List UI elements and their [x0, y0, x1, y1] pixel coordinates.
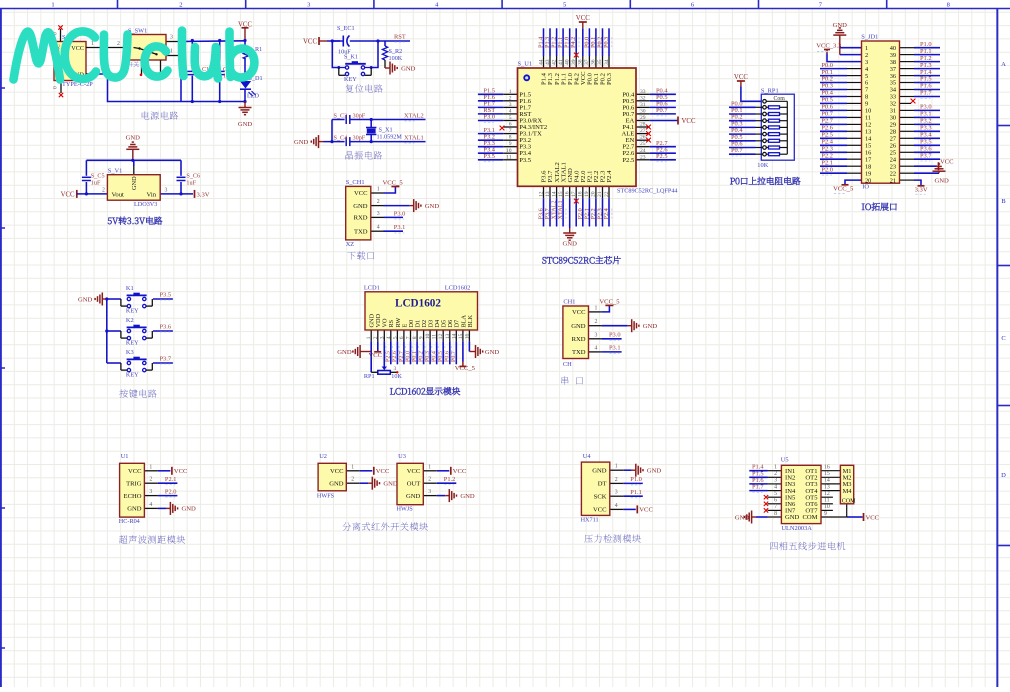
svg-text:2: 2 [428, 477, 431, 483]
svg-text:2: 2 [865, 52, 868, 59]
svg-text:HWFS: HWFS [317, 493, 335, 500]
svg-text:P3.0: P3.0 [483, 114, 495, 121]
svg-text:9: 9 [509, 141, 512, 147]
svg-text:24: 24 [640, 148, 646, 154]
svg-text:5: 5 [774, 491, 777, 497]
svg-text:1: 1 [774, 465, 777, 471]
svg-text:VCC: VCC [128, 468, 142, 475]
svg-text:37: 37 [584, 59, 590, 65]
svg-text:P3.5: P3.5 [519, 157, 532, 164]
svg-text:1: 1 [170, 49, 173, 55]
svg-text:GND: GND [460, 493, 475, 500]
svg-text:HC-R04: HC-R04 [119, 518, 140, 525]
svg-text:22: 22 [604, 191, 610, 197]
svg-text:17: 17 [865, 156, 871, 163]
svg-text:RXD: RXD [354, 215, 368, 222]
svg-text:GND: GND [238, 121, 253, 128]
svg-text:LCD1602: LCD1602 [445, 285, 471, 292]
svg-text:Vout: Vout [112, 191, 125, 198]
svg-text:40: 40 [565, 59, 571, 65]
svg-text:TXD: TXD [572, 349, 586, 356]
svg-text:P0.6: P0.6 [445, 351, 451, 362]
svg-text:1: 1 [366, 336, 372, 339]
svg-text:BLK: BLK [467, 314, 474, 327]
svg-text:4: 4 [149, 502, 152, 508]
svg-text:VCC: VCC [682, 118, 696, 125]
svg-text:S_U1: S_U1 [518, 61, 533, 68]
svg-text:P2.1: P2.1 [821, 159, 833, 166]
svg-text:33: 33 [640, 89, 646, 95]
svg-text:16: 16 [565, 191, 571, 197]
svg-text:3: 3 [394, 366, 397, 372]
svg-text:9: 9 [419, 336, 425, 339]
svg-text:1: 1 [595, 305, 598, 311]
svg-text:P2.6: P2.6 [392, 351, 398, 362]
svg-text:P3.5: P3.5 [160, 291, 172, 298]
svg-text:S_C6: S_C6 [186, 172, 200, 179]
svg-text:KEY: KEY [344, 76, 357, 83]
svg-text:P0.7: P0.7 [821, 111, 833, 118]
svg-text:S_K1: S_K1 [344, 54, 358, 61]
svg-text:P0.1: P0.1 [412, 351, 418, 362]
svg-text:P1.1: P1.1 [920, 48, 932, 55]
svg-text:P1.2: P1.2 [444, 476, 456, 483]
svg-text:S_C4: S_C4 [334, 135, 348, 142]
svg-text:23: 23 [890, 163, 896, 170]
svg-text:13: 13 [824, 484, 830, 490]
svg-text:37: 37 [890, 66, 896, 73]
svg-text:36: 36 [591, 59, 597, 65]
svg-text:23: 23 [640, 154, 646, 160]
svg-text:GND: GND [401, 65, 416, 72]
svg-text:15: 15 [558, 191, 564, 197]
svg-text:2: 2 [179, 2, 182, 9]
svg-text:2: 2 [509, 95, 512, 101]
svg-text:18: 18 [578, 191, 584, 197]
svg-text:P1.2: P1.2 [920, 55, 932, 62]
svg-text:P3.1: P3.1 [394, 224, 406, 231]
svg-text:3: 3 [165, 187, 168, 193]
svg-text:3: 3 [377, 211, 380, 217]
svg-text:GND: GND [131, 176, 138, 190]
svg-text:P0.5: P0.5 [438, 351, 444, 362]
svg-text:GND: GND [425, 203, 440, 210]
svg-text:3: 3 [774, 478, 777, 484]
svg-text:VCC: VCC [376, 468, 390, 475]
svg-text:3.3V: 3.3V [197, 191, 210, 198]
svg-text:P1.1: P1.1 [630, 489, 642, 496]
svg-text:8: 8 [412, 336, 418, 339]
svg-text:12: 12 [538, 191, 544, 197]
svg-text:LCD1: LCD1 [364, 285, 380, 292]
svg-text:VCC: VCC [174, 468, 188, 475]
svg-text:P1.7: P1.7 [752, 484, 764, 491]
svg-text:39: 39 [571, 59, 577, 65]
svg-text:0: 0 [53, 86, 59, 89]
svg-text:P0.4: P0.4 [432, 351, 438, 362]
svg-text:4: 4 [595, 345, 598, 351]
svg-text:P1.6: P1.6 [920, 83, 932, 90]
svg-text:P0.0: P0.0 [405, 351, 411, 362]
svg-text:2: 2 [615, 477, 618, 483]
svg-text:15: 15 [458, 334, 464, 340]
svg-text:P2.1: P2.1 [165, 476, 177, 483]
svg-text:25: 25 [640, 141, 646, 147]
svg-text:14: 14 [865, 136, 872, 143]
svg-text:D: D [1001, 472, 1006, 479]
svg-text:Vin: Vin [147, 191, 157, 198]
svg-text:GND: GND [647, 468, 662, 475]
svg-text:26: 26 [890, 143, 896, 150]
svg-text:38: 38 [890, 59, 896, 66]
svg-text:P3.0: P3.0 [920, 104, 932, 111]
svg-text:P4.2: P4.2 [570, 37, 577, 48]
svg-text:LCD1602: LCD1602 [395, 297, 441, 309]
svg-text:GND: GND [406, 493, 421, 500]
svg-text:35: 35 [597, 59, 603, 65]
svg-text:XZ: XZ [346, 241, 355, 248]
svg-text:K1: K1 [126, 285, 134, 292]
svg-text:14: 14 [551, 191, 557, 197]
svg-text:32: 32 [640, 95, 646, 101]
svg-text:GND: GND [78, 297, 93, 304]
svg-text:P2.2: P2.2 [821, 152, 833, 159]
svg-text:P3.5: P3.5 [920, 139, 932, 146]
svg-text:5: 5 [509, 115, 512, 121]
svg-text:3: 3 [428, 489, 431, 495]
svg-text:KEY: KEY [126, 340, 139, 347]
svg-text:6: 6 [509, 122, 512, 128]
svg-text:P1.3: P1.3 [920, 62, 932, 69]
svg-text:P3.7: P3.7 [920, 152, 932, 159]
svg-text:P3.5: P3.5 [483, 153, 495, 160]
svg-text:11.0592M: 11.0592M [377, 134, 403, 141]
svg-text:LED: LED [247, 93, 260, 100]
svg-text:P2.5: P2.5 [386, 351, 392, 362]
svg-text:P3.1: P3.1 [920, 111, 932, 118]
svg-text:GND: GND [785, 514, 800, 521]
svg-text:P3.0: P3.0 [394, 210, 406, 217]
svg-text:3: 3 [170, 35, 173, 41]
svg-text:44: 44 [538, 59, 544, 65]
svg-text:10: 10 [865, 108, 871, 115]
svg-text:S_V1: S_V1 [108, 167, 123, 174]
svg-text:2: 2 [373, 336, 379, 339]
svg-text:GND: GND [182, 506, 197, 513]
svg-text:VCC: VCC [576, 15, 590, 22]
svg-text:15: 15 [824, 471, 830, 477]
svg-text:11: 11 [432, 334, 438, 340]
svg-text:P3.1: P3.1 [609, 345, 621, 352]
svg-text:GND: GND [294, 139, 309, 146]
svg-text:HWJS: HWJS [397, 506, 414, 513]
svg-text:M4: M4 [843, 488, 853, 495]
svg-text:11: 11 [824, 498, 830, 504]
svg-text:2: 2 [774, 471, 777, 477]
svg-text:6: 6 [865, 80, 868, 87]
svg-text:31: 31 [640, 102, 646, 108]
svg-text:XTAL1: XTAL1 [404, 134, 424, 141]
svg-text:P1.0: P1.0 [630, 476, 642, 483]
svg-text:VCC_5: VCC_5 [455, 365, 476, 372]
svg-text:21: 21 [597, 191, 603, 197]
svg-text:12: 12 [824, 491, 830, 497]
svg-text:7: 7 [774, 504, 777, 510]
svg-text:P0.5: P0.5 [821, 97, 833, 104]
svg-text:1: 1 [51, 2, 54, 9]
svg-text:GND: GND [337, 349, 352, 356]
svg-text:4: 4 [509, 108, 512, 114]
svg-text:P3.3: P3.3 [920, 125, 932, 132]
svg-text:P0.0: P0.0 [821, 62, 833, 69]
svg-text:SCK: SCK [594, 493, 607, 500]
svg-text:GND: GND [329, 480, 344, 487]
svg-text:P2.5: P2.5 [622, 157, 635, 164]
svg-text:P2.5: P2.5 [821, 132, 833, 139]
svg-text:2: 2 [149, 477, 152, 483]
svg-text:1: 1 [615, 464, 618, 470]
svg-text:DT: DT [598, 481, 607, 488]
svg-text:1: 1 [91, 41, 94, 47]
svg-text:4: 4 [386, 336, 392, 339]
svg-text:GND: GND [571, 323, 586, 330]
svg-text:43: 43 [545, 59, 551, 65]
svg-text:CH1: CH1 [563, 299, 575, 306]
svg-text:14: 14 [451, 334, 457, 340]
svg-text:6: 6 [774, 498, 777, 504]
svg-text:1uF: 1uF [186, 179, 196, 186]
svg-text:P0.6: P0.6 [821, 104, 833, 111]
svg-text:U3: U3 [398, 453, 406, 460]
svg-text:30pF: 30pF [353, 135, 366, 142]
svg-text:VCC_5: VCC_5 [383, 179, 404, 186]
svg-text:6: 6 [399, 336, 405, 339]
svg-text:P0.3: P0.3 [606, 72, 613, 85]
svg-text:OUT: OUT [407, 480, 421, 487]
svg-text:19: 19 [584, 191, 590, 197]
svg-text:VCC: VCC [572, 309, 586, 316]
svg-text:2: 2 [377, 199, 380, 205]
svg-text:10: 10 [506, 148, 512, 154]
svg-text:2: 2 [595, 319, 598, 325]
svg-text:5: 5 [392, 336, 398, 339]
svg-text:S_C5: S_C5 [91, 172, 105, 179]
svg-text:1: 1 [509, 89, 512, 95]
svg-text:9: 9 [824, 511, 827, 517]
svg-text:K3: K3 [126, 349, 134, 356]
svg-text:4: 4 [774, 484, 777, 490]
svg-text:42: 42 [551, 59, 557, 65]
svg-text:KEY: KEY [126, 372, 139, 379]
svg-text:COM: COM [842, 499, 856, 505]
svg-text:P1.7: P1.7 [920, 90, 932, 97]
svg-text:20: 20 [591, 191, 597, 197]
svg-text:P3.6: P3.6 [160, 323, 172, 330]
svg-text:HX711: HX711 [581, 517, 599, 524]
svg-text:LDO3V3: LDO3V3 [134, 201, 157, 208]
svg-text:16: 16 [824, 465, 830, 471]
svg-text:30pF: 30pF [353, 113, 366, 120]
svg-text:VCC: VCC [593, 507, 607, 514]
svg-text:GND: GND [485, 349, 500, 356]
svg-text:STC89C52RC_LQFP44: STC89C52RC_LQFP44 [617, 188, 678, 195]
svg-text:P0.2: P0.2 [821, 76, 833, 83]
svg-text:16: 16 [464, 334, 470, 340]
svg-text:B: B [1001, 198, 1006, 205]
svg-text:7: 7 [509, 128, 512, 134]
svg-text:30: 30 [890, 115, 896, 122]
svg-text:VCC_5: VCC_5 [599, 298, 620, 305]
svg-text:P2.5: P2.5 [656, 153, 668, 160]
svg-text:GND: GND [383, 481, 398, 488]
svg-text:U5: U5 [781, 457, 789, 464]
svg-text:39: 39 [890, 52, 896, 59]
svg-text:GND: GND [127, 506, 142, 513]
svg-text:Com: Com [774, 96, 786, 102]
svg-text:ULN2003A: ULN2003A [781, 525, 812, 532]
svg-text:U4: U4 [583, 453, 592, 460]
svg-text:4: 4 [615, 503, 618, 509]
svg-text:P1.5: P1.5 [920, 76, 932, 83]
svg-text:41: 41 [558, 59, 564, 65]
svg-text:K2: K2 [126, 317, 134, 324]
svg-text:3: 3 [509, 102, 512, 108]
svg-text:C: C [1001, 335, 1005, 342]
svg-text:VCC: VCC [453, 468, 467, 475]
svg-text:31: 31 [890, 108, 896, 115]
svg-text:26: 26 [640, 135, 646, 141]
svg-text:GND: GND [353, 203, 368, 210]
svg-text:GND: GND [592, 467, 607, 474]
svg-text:38: 38 [578, 59, 584, 65]
svg-text:17: 17 [571, 191, 577, 197]
svg-text:GND: GND [735, 514, 750, 521]
svg-text:12: 12 [438, 334, 444, 340]
svg-text:P0.7: P0.7 [656, 107, 668, 114]
svg-text:18: 18 [865, 163, 871, 170]
svg-text:P3.0: P3.0 [609, 332, 621, 339]
svg-text:P0.7: P0.7 [731, 147, 743, 154]
svg-text:VCC: VCC [639, 507, 653, 514]
svg-text:3: 3 [615, 490, 618, 496]
svg-text:9: 9 [865, 101, 868, 108]
svg-text:VCC: VCC [407, 468, 421, 475]
svg-text:P0.3: P0.3 [603, 37, 610, 48]
svg-text:11: 11 [506, 154, 512, 160]
svg-text:VCC: VCC [61, 191, 75, 198]
svg-text:24: 24 [890, 156, 897, 163]
svg-text:VCC: VCC [303, 39, 317, 46]
svg-text:U2: U2 [319, 453, 327, 460]
svg-text:VCC: VCC [354, 190, 368, 197]
svg-text:3: 3 [307, 2, 310, 9]
svg-text:2: 2 [117, 41, 120, 47]
svg-text:RST: RST [394, 34, 406, 41]
svg-text:13: 13 [545, 191, 551, 197]
svg-text:10: 10 [824, 504, 830, 510]
svg-text:P2.0: P2.0 [165, 488, 177, 495]
svg-text:32: 32 [890, 101, 896, 108]
svg-text:RXD: RXD [572, 336, 586, 343]
svg-text:8: 8 [947, 2, 950, 9]
svg-text:2: 2 [351, 477, 354, 483]
svg-text:S_JD1: S_JD1 [861, 34, 878, 41]
svg-text:GND: GND [643, 323, 658, 330]
svg-text:TRIG: TRIG [126, 480, 142, 487]
svg-text:7: 7 [865, 87, 868, 94]
svg-text:8: 8 [774, 511, 777, 517]
svg-text:P0.7: P0.7 [451, 351, 457, 362]
svg-text:ECHO: ECHO [124, 493, 142, 500]
svg-text:13: 13 [445, 334, 451, 340]
svg-text:1: 1 [377, 187, 380, 193]
svg-text:RP1: RP1 [364, 373, 375, 380]
svg-text:1: 1 [351, 464, 354, 470]
svg-text:VCC: VCC [734, 74, 748, 81]
svg-text:A: A [1001, 61, 1006, 68]
svg-text:S_X1: S_X1 [379, 127, 393, 134]
svg-text:21: 21 [890, 177, 896, 184]
svg-text:VCC: VCC [866, 514, 880, 521]
svg-text:VCC: VCC [71, 45, 84, 52]
svg-text:35: 35 [890, 80, 896, 87]
svg-text:P2.0: P2.0 [821, 166, 833, 173]
svg-text:4: 4 [377, 225, 380, 231]
svg-text:29: 29 [640, 115, 646, 121]
svg-text:P0.2: P0.2 [418, 351, 424, 362]
svg-text:S_EC1: S_EC1 [337, 25, 355, 32]
svg-text:30: 30 [640, 108, 646, 114]
svg-text:U1: U1 [121, 453, 129, 460]
svg-text:28: 28 [890, 129, 896, 136]
svg-text:S_CH1: S_CH1 [346, 179, 365, 186]
svg-text:2: 2 [102, 187, 105, 193]
svg-text:34: 34 [890, 87, 897, 94]
svg-text:P3.7: P3.7 [160, 355, 172, 362]
svg-text:1: 1 [428, 464, 431, 470]
svg-text:3: 3 [865, 59, 868, 66]
svg-text:5: 5 [563, 2, 566, 9]
svg-text:1: 1 [149, 464, 152, 470]
svg-text:P2.4: P2.4 [606, 170, 613, 183]
svg-text:34: 34 [604, 59, 610, 65]
svg-text:3.3V: 3.3V [915, 186, 928, 193]
svg-text:S_R2: S_R2 [389, 48, 403, 55]
svg-text:P2.4: P2.4 [603, 208, 610, 219]
svg-text:VCC_5: VCC_5 [833, 186, 854, 193]
svg-text:KEY: KEY [126, 308, 139, 315]
svg-text:14: 14 [824, 478, 830, 484]
svg-text:3: 3 [379, 336, 385, 339]
svg-text:GND: GND [563, 241, 578, 248]
svg-text:28: 28 [640, 122, 646, 128]
svg-text:3: 3 [149, 489, 152, 495]
svg-text:GND: GND [126, 135, 141, 142]
svg-text:10K: 10K [757, 162, 768, 169]
svg-text:27: 27 [890, 136, 896, 143]
svg-text:P0.3: P0.3 [425, 351, 431, 362]
svg-text:S_RP1: S_RP1 [761, 88, 779, 95]
svg-text:27: 27 [640, 128, 646, 134]
svg-text:11: 11 [865, 115, 871, 122]
svg-text:VCC: VCC [940, 159, 954, 166]
svg-text:8: 8 [509, 135, 512, 141]
svg-text:7: 7 [406, 336, 412, 339]
svg-text:COM: COM [802, 514, 817, 521]
svg-text:10: 10 [425, 334, 431, 340]
svg-text:P2.6: P2.6 [821, 125, 833, 132]
svg-text:13: 13 [865, 129, 871, 136]
